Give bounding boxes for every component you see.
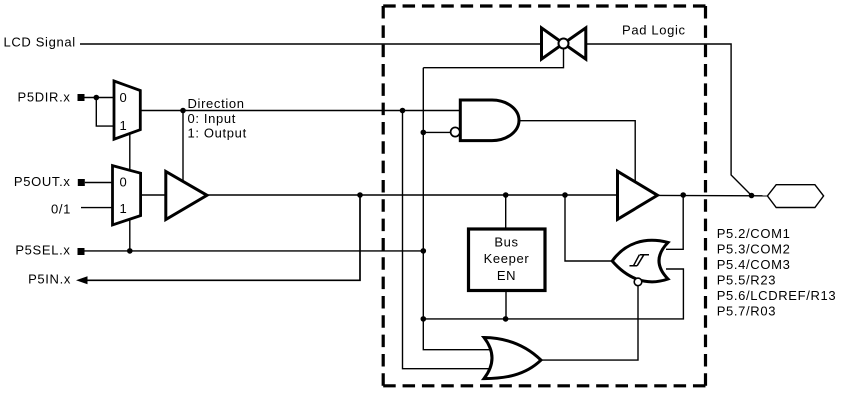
mux M1 (direction select) (114, 81, 140, 139)
pad hexagon (767, 185, 823, 208)
AND gate U1 input bubble (451, 127, 460, 136)
svg-text:P5SEL.x: P5SEL.x (15, 243, 70, 258)
svg-text:0: 0 (120, 175, 128, 190)
svg-text:1: 1 (120, 201, 128, 216)
wire schmitt enable from OR output (541, 286, 638, 360)
wire pad node down to schmitt input (666, 195, 683, 249)
wire pad line from B2 to pad (658, 194, 768, 196)
wire rail B (P5SEL control rail) (423, 68, 489, 350)
junction dot rail B to bus keeper line (421, 316, 427, 322)
junction dot keeper line at EN (503, 316, 509, 322)
wire 0/1 to mux M2 input 1 (81, 207, 113, 209)
pad driver B2 triangle (618, 171, 658, 219)
wire AND gate bubble input (423, 131, 450, 133)
svg-text:P5.2/COM1: P5.2/COM1 (717, 226, 791, 241)
svg-text:Direction: Direction (188, 96, 245, 111)
wire bus keeper top to main line (505, 195, 507, 229)
svg-text:P5.4/COM3: P5.4/COM3 (717, 257, 791, 272)
junction dot Direction to rail A (400, 108, 406, 114)
svg-text:1: 1 (120, 118, 128, 133)
svg-text:P5.7/R03: P5.7/R03 (717, 304, 776, 319)
schmitt enable bubble (634, 278, 642, 286)
junction dot P5IN tap (357, 192, 363, 198)
junction dot P5DIR branch (94, 95, 100, 101)
wire M1 select to M2 (129, 134, 131, 171)
junction dot pad node outside box (749, 193, 755, 199)
junction dot P5SEL to M2 select (127, 248, 133, 254)
wire P5SEL.x line (85, 250, 424, 252)
svg-text:EN: EN (497, 268, 516, 283)
svg-text:P5OUT.x: P5OUT.x (14, 174, 71, 189)
svg-text:P5.5/R23: P5.5/R23 (717, 273, 776, 288)
junction dot rail B to AND bubble input (421, 130, 427, 136)
terminal square P5OUT.x (78, 179, 85, 186)
svg-text:P5.3/COM2: P5.3/COM2 (717, 242, 791, 257)
svg-text:P5.6/LCDREF/R13: P5.6/LCDREF/R13 (717, 288, 837, 303)
junction dot schmitt output tap (562, 192, 568, 198)
transmission gate T1 right triangle (564, 28, 586, 59)
wire P5OUT.x to mux M2 input 0 (85, 182, 113, 184)
wire Direction down to output buffer enable (182, 111, 184, 183)
wire M2 select down to P5SEL line (129, 219, 131, 251)
wire LCD Signal right segment to pad corner (586, 44, 752, 196)
wire M1 output / Direction line to AND gate (140, 110, 460, 112)
OR gate U3 (484, 338, 541, 379)
svg-text:P5IN.x: P5IN.x (28, 272, 71, 287)
wire P5IN.x from main line tap (87, 195, 361, 280)
wire schmitt output to main line (565, 195, 612, 261)
junction dot P5SEL to rail B (421, 248, 427, 254)
Bus Keeper box (469, 229, 546, 291)
svg-text:0/1: 0/1 (51, 202, 71, 217)
wire main line from B1 to input of pad driver (207, 194, 618, 196)
terminal square P5DIR.x (78, 94, 85, 101)
junction dot pad node inside box (680, 192, 686, 198)
junction dot bus keeper tap (503, 192, 509, 198)
svg-text:1: Output: 1: Output (188, 126, 247, 141)
wire LCD Signal horizontal left segment (80, 43, 542, 45)
AND gate U1 (460, 100, 519, 141)
transmission gate T1 control wire to rail B (423, 47, 563, 68)
junction dot Direction node (180, 108, 186, 114)
wire rail A (direction rail to OR input) (403, 111, 496, 369)
wire M2 output to buffer (141, 194, 166, 196)
svg-text:P5DIR.x: P5DIR.x (18, 90, 71, 105)
output buffer B1 triangle (166, 172, 207, 220)
wire AND output to pad driver enable (519, 121, 635, 182)
mux M2 (output select) (113, 166, 141, 225)
svg-text:Keeper: Keeper (484, 251, 530, 266)
transmission gate T1 bubble (559, 39, 569, 49)
terminal square P5SEL.x (78, 248, 85, 255)
svg-text:0: Input: 0: Input (188, 111, 237, 126)
schmitt hysteresis symbol (630, 255, 650, 266)
wire bus keeper bottom to keeper line (505, 291, 507, 319)
svg-text:Pad Logic: Pad Logic (622, 23, 686, 38)
wire P5DIR.x branch to mux input 1 (96, 98, 114, 127)
svg-text:0: 0 (120, 90, 128, 105)
wire bus keeper line (423, 269, 683, 319)
svg-text:Bus: Bus (494, 235, 518, 250)
dashed Pad Logic box border (383, 4, 705, 7)
schmitt trigger input buffer U2 (612, 240, 668, 281)
svg-text:LCD Signal: LCD Signal (4, 35, 76, 50)
transmission gate T1 left triangle (542, 28, 564, 59)
wire P5DIR.x to mux input 0 (85, 97, 115, 99)
arrowhead P5IN.x (76, 276, 88, 284)
